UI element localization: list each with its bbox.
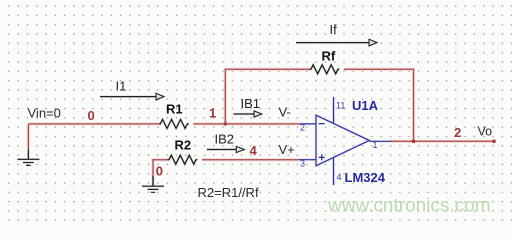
svg-text:Vin=0: Vin=0 [28, 106, 61, 121]
svg-text:0: 0 [88, 108, 95, 123]
svg-text:2: 2 [454, 125, 461, 140]
wire left ground drop [27, 124, 29, 149]
op-amp pin 3 stub (non-inverting input) [299, 154, 325, 168]
label R2=R1//Rf [198, 185, 259, 200]
terminal dot Vo [492, 140, 496, 144]
svg-text:Vo: Vo [478, 125, 493, 139]
svg-text:R1: R1 [166, 102, 183, 117]
svg-text:1: 1 [373, 140, 378, 150]
op-amp pin 11 power stub [334, 97, 346, 123]
svg-text:U1A: U1A [352, 98, 379, 113]
node label 2 [454, 125, 461, 140]
svg-text:V+: V+ [279, 142, 295, 157]
svg-text:IB2: IB2 [215, 132, 235, 147]
ground (left, node 0) [17, 149, 39, 165]
svg-text:2: 2 [300, 122, 305, 132]
wire Vin input to R1 and on to node 1 [28, 123, 225, 125]
svg-text:LM324: LM324 [345, 170, 386, 185]
label Vin=0 [28, 106, 61, 121]
label LM324 [345, 170, 386, 185]
svg-text:Rf: Rf [322, 49, 336, 64]
svg-text:IB1: IB1 [241, 96, 261, 111]
svg-text:www.cntronics.com: www.cntronics.com [327, 195, 491, 216]
resistor Rf [309, 49, 339, 74]
svg-text:1: 1 [209, 106, 216, 121]
ground (below R2, node 0) [142, 164, 164, 193]
op-amp U1A triangle [316, 115, 369, 166]
op-amp pin 2 stub (inverting input) [299, 122, 325, 132]
svg-text:R2=R1//Rf: R2=R1//Rf [198, 185, 259, 200]
node 1 junction dot [209, 106, 227, 126]
output wire to Vo [390, 140, 494, 142]
op-amp pin 4 power stub [334, 158, 342, 185]
svg-text:3: 3 [300, 159, 305, 169]
svg-text:If: If [330, 22, 338, 37]
current arrow If [296, 22, 377, 46]
label V+ [279, 142, 295, 157]
svg-text:4: 4 [250, 143, 258, 158]
svg-text:4: 4 [337, 172, 342, 182]
svg-text:I1: I1 [116, 79, 127, 94]
label V- [279, 105, 291, 120]
watermark www.cntronics.com [327, 195, 491, 216]
svg-text:R2: R2 [175, 138, 192, 153]
wire node1 to pin2 [225, 123, 299, 125]
wire R2 net: ground up, through R2, to pin3 [153, 160, 299, 185]
node label 4 [250, 143, 258, 158]
node label 0 (input net) [88, 108, 95, 123]
current arrow IB2 [207, 132, 244, 153]
label U1A [352, 98, 379, 113]
feedback wire: node1 up, across top, down to output [225, 69, 413, 141]
op-amp pin 1 output stub [369, 140, 392, 150]
junction dot at feedback/output [412, 140, 416, 144]
svg-text:V-: V- [279, 105, 291, 120]
current arrow IB1 [233, 96, 261, 117]
svg-text:11: 11 [336, 100, 345, 110]
label Vo [478, 125, 493, 139]
resistor R1 [159, 102, 189, 129]
wire halo (soft blur of red nets) [17, 43, 494, 187]
svg-text:0: 0 [156, 164, 163, 179]
resistor R2 [168, 138, 198, 165]
current arrow I1 [100, 79, 164, 100]
